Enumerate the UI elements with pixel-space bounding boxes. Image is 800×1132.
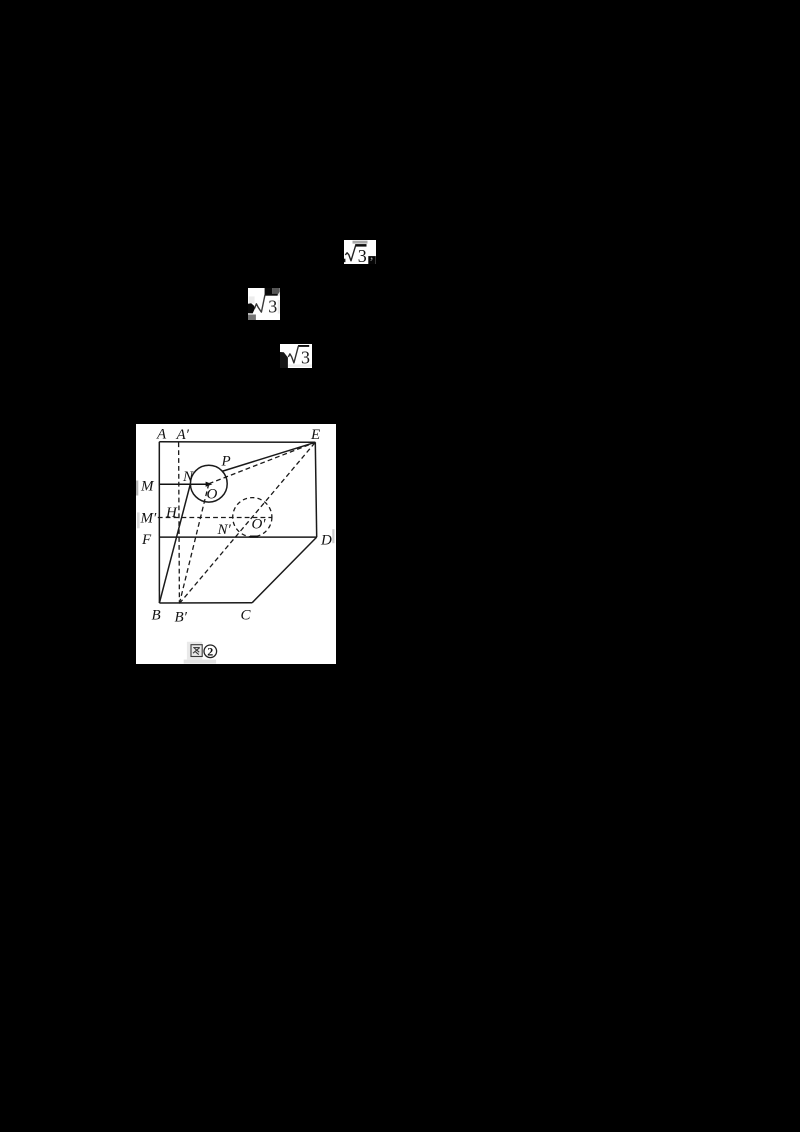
sphere circle O — [190, 465, 227, 502]
segment B-N — [159, 483, 190, 602]
gray edge artifact right of D — [332, 529, 334, 543]
edge E-D (right) — [315, 442, 316, 537]
svg-text:O: O — [207, 486, 218, 502]
dashed circle O' — [233, 497, 272, 536]
caption circled 2 — [204, 644, 217, 657]
svg-text:P: P — [221, 453, 231, 469]
formula image box 3: sqrt(3) — [280, 344, 312, 368]
vinculum — [355, 244, 366, 246]
gray bar artifact — [353, 240, 368, 243]
svg-text:B′: B′ — [175, 609, 188, 625]
svg-text:A′: A′ — [176, 426, 190, 442]
black top-right corner — [264, 288, 272, 295]
gray top-right corner — [272, 288, 279, 295]
light column artifact — [249, 296, 255, 303]
svg-text:F: F — [141, 531, 152, 547]
caption glyph tu (figure) — [191, 644, 202, 656]
dashed O-E — [209, 442, 315, 483]
svg-text:O′: O′ — [251, 516, 266, 532]
edge A-F-B (left) — [158, 441, 160, 602]
gray edge artifact left lower — [137, 512, 140, 528]
svg-text:E: E — [310, 427, 320, 443]
svg-text:C: C — [240, 607, 251, 623]
black blob artifact — [248, 303, 255, 313]
svg-text:H: H — [165, 504, 178, 520]
svg-text:A: A — [156, 426, 167, 442]
edge B-C (bottom) — [159, 601, 252, 603]
dashed B'-E through O' — [179, 442, 315, 603]
svg-text:3: 3 — [268, 296, 277, 316]
figure box — [136, 424, 336, 664]
tangency tick on F-D — [250, 535, 258, 537]
caption gray backgrounds — [187, 641, 202, 659]
radical stroke — [288, 346, 298, 363]
svg-text:N: N — [182, 468, 194, 484]
gray edge artifact left upper — [136, 480, 138, 495]
radical stroke — [254, 295, 264, 312]
segment E-P tangent — [223, 442, 316, 471]
svg-text:3: 3 — [301, 347, 310, 367]
edge A-E (top) — [159, 440, 315, 442]
black notch with gray comma — [368, 256, 375, 264]
formula image box 1: sqrt(3) with comma — [344, 240, 376, 264]
radical stroke — [345, 245, 355, 260]
gray bottom-left — [248, 314, 256, 320]
dashed M' horizontal — [158, 516, 273, 518]
edge C-D — [252, 537, 317, 603]
svg-text:B: B — [152, 607, 161, 623]
arrow M to O — [160, 483, 206, 485]
vinculum — [264, 294, 277, 296]
svg-text:2: 2 — [207, 644, 213, 658]
svg-text:D: D — [320, 532, 332, 548]
svg-text:M′: M′ — [140, 510, 157, 526]
left black nub — [344, 258, 345, 261]
vinculum — [298, 345, 309, 347]
svg-text:,: , — [370, 247, 374, 262]
dashed B'-O — [179, 483, 208, 603]
edge F-D — [159, 536, 316, 538]
dark bottom-left corner — [280, 352, 288, 368]
dashed A'-B' — [178, 442, 181, 603]
formula image box 2: sqrt(3) — [248, 288, 280, 321]
svg-text:3: 3 — [358, 246, 367, 264]
right sliver — [278, 300, 280, 314]
bottom light strip — [288, 364, 312, 366]
svg-text:N′: N′ — [217, 521, 232, 537]
svg-text:M: M — [140, 478, 155, 494]
